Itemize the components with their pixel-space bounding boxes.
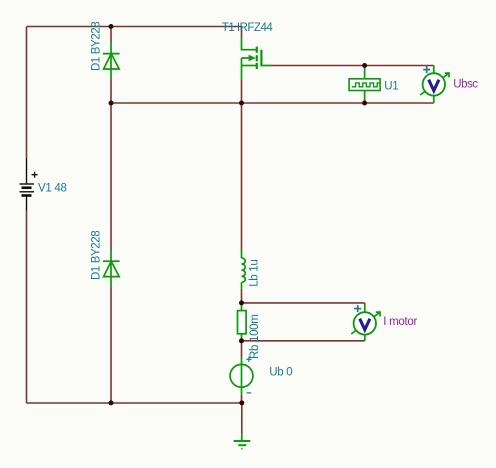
wire diode column: [110, 27, 112, 404]
voltmeter I motor: [351, 303, 380, 341]
wire gate net: [272, 65, 434, 67]
battery V1: [20, 158, 38, 211]
ground: [234, 434, 251, 449]
source U1: [349, 67, 380, 103]
svg-text:Lb 1u: Lb 1u: [249, 260, 261, 287]
svg-text:Ub 0: Ub 0: [269, 367, 292, 379]
wire shunt top: [242, 302, 365, 304]
svg-text:I motor: I motor: [383, 316, 417, 328]
svg-text:D1 BY228: D1 BY228: [91, 231, 103, 280]
resistor Rb: [238, 303, 247, 341]
diode D1 (top): [103, 43, 120, 80]
svg-text:Rb 100m: Rb 100m: [249, 314, 261, 359]
wire bottom rail: [27, 402, 242, 404]
wire mid rail: [111, 102, 434, 104]
wire top rail: [27, 27, 242, 39]
svg-text:D1 BY228: D1 BY228: [91, 22, 103, 71]
source Ub: [230, 357, 253, 395]
svg-text:Ubsc: Ubsc: [453, 79, 478, 91]
svg-text:T1 IRFZ44: T1 IRFZ44: [222, 22, 274, 34]
wire shunt bottom: [242, 340, 365, 342]
wire center column: [241, 80, 243, 434]
voltmeter Ubsc: [420, 66, 449, 104]
svg-text:U1: U1: [384, 80, 398, 92]
inductor Lb: [242, 250, 246, 289]
diode D1 (bottom): [103, 251, 120, 288]
wire left rail: [26, 27, 28, 404]
transistor T1: [242, 38, 273, 80]
svg-text:V1 48: V1 48: [38, 182, 67, 194]
